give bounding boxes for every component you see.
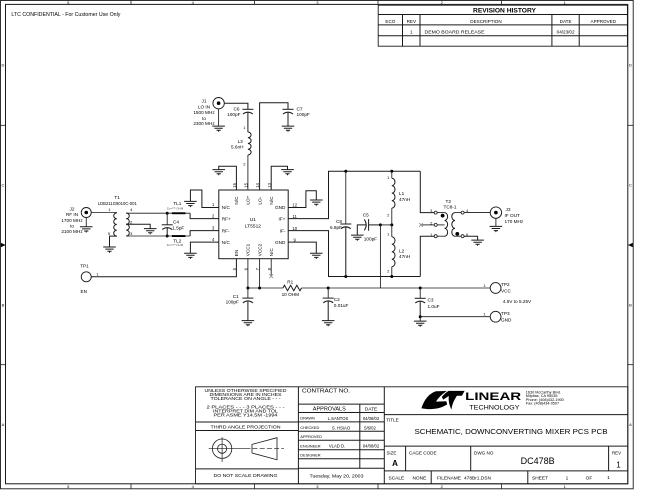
svg-text:GND: GND xyxy=(501,317,512,322)
svg-text:2300 MHz: 2300 MHz xyxy=(193,121,215,126)
svg-text:L.SANTOS: L.SANTOS xyxy=(328,416,349,421)
svg-text:CHECKED: CHECKED xyxy=(300,425,319,430)
node L1 L2 midpoint xyxy=(390,223,393,226)
wire VCC rail left segment xyxy=(248,287,283,289)
svg-text:1500 MHz: 1500 MHz xyxy=(193,110,215,115)
inductor L1 47nH xyxy=(387,171,410,225)
svg-text:VLAD D.: VLAD D. xyxy=(329,444,345,449)
svg-text:U1: U1 xyxy=(250,217,257,223)
svg-text:1: 1 xyxy=(566,476,569,482)
svg-text:100pF: 100pF xyxy=(297,112,310,117)
svg-text:APPROVED: APPROVED xyxy=(300,434,322,439)
drawing title xyxy=(384,418,628,446)
svg-text:J1: J1 xyxy=(202,98,207,103)
svg-text:10 OHM: 10 OHM xyxy=(282,292,300,297)
svg-text:VCC1: VCC1 xyxy=(246,243,251,256)
svg-text:SCALE: SCALE xyxy=(389,476,405,482)
svg-text:J2: J2 xyxy=(70,206,75,211)
ground at C2 xyxy=(322,321,335,327)
svg-text:1: 1 xyxy=(410,29,413,34)
logo Linear Technology xyxy=(384,390,628,414)
svg-text:APPROVALS: APPROVALS xyxy=(313,407,346,413)
svg-text:A: A xyxy=(392,459,398,468)
svg-text:N/C: N/C xyxy=(269,248,274,257)
svg-text:5.6nH: 5.6nH xyxy=(231,145,244,150)
svg-text:DC478B: DC478B xyxy=(521,456,555,466)
svg-text:S. HSIAO: S. HSIAO xyxy=(332,425,351,430)
wire TL2 to U1 pin 3 xyxy=(190,231,219,236)
svg-text:47nH: 47nH xyxy=(399,254,410,259)
svg-text:IF+: IF+ xyxy=(278,216,285,221)
svg-text:REV: REV xyxy=(612,451,621,456)
svg-text:OF: OF xyxy=(586,476,593,482)
svg-text:APPROVED: APPROVED xyxy=(591,19,617,24)
capacitor C4 1.5pF xyxy=(162,213,185,236)
svg-text:CAGE CODE: CAGE CODE xyxy=(409,450,437,455)
svg-text:LT5512: LT5512 xyxy=(245,223,262,229)
svg-text:EN: EN xyxy=(234,250,239,257)
wire bias riser to VCC rail xyxy=(379,225,381,288)
capacitor C8 6.8pF xyxy=(330,171,351,276)
svg-text:DRAWN: DRAWN xyxy=(300,416,315,421)
capacitor C3 1.0uF xyxy=(415,288,440,317)
svg-text:C1: C1 xyxy=(233,294,239,299)
capacitor C6 100pF xyxy=(227,106,253,117)
capacitor C1 100pF xyxy=(226,288,254,321)
wire T1 pin 5 to ground xyxy=(110,236,117,247)
node bottom rail C8 junction xyxy=(344,275,347,278)
resistor R1 10 OHM xyxy=(282,279,302,297)
svg-text:DESCRIPTION: DESCRIPTION xyxy=(470,19,501,24)
transformer T2 TC8-1 xyxy=(430,199,469,238)
svg-text:4.5V to 5.25V: 4.5V to 5.25V xyxy=(503,299,532,304)
svg-text:Fax: (408)434-0507: Fax: (408)434-0507 xyxy=(526,402,559,406)
svg-text:C7: C7 xyxy=(297,106,303,111)
ground at C5 xyxy=(351,235,364,241)
svg-text:04/08/02: 04/08/02 xyxy=(363,444,380,449)
wire U1 pin 5 EN to TP1 xyxy=(91,259,236,277)
ground at T1 pin 2 xyxy=(144,229,157,235)
svg-text:J3: J3 xyxy=(506,207,511,212)
svg-text:N/C: N/C xyxy=(222,240,231,245)
svg-text:C8: C8 xyxy=(336,219,342,224)
svg-text:RF-: RF- xyxy=(222,228,230,233)
svg-text:C: C xyxy=(629,183,632,188)
svg-text:EN: EN xyxy=(80,289,87,294)
svg-text:PER ASME Y14.5M -1994: PER ASME Y14.5M -1994 xyxy=(214,413,279,418)
svg-text:C6: C6 xyxy=(234,106,240,111)
svg-text:LDB211G9010C-001: LDB211G9010C-001 xyxy=(98,201,137,206)
svg-text:170 MHz: 170 MHz xyxy=(505,219,524,224)
svg-text:15: 15 xyxy=(244,182,249,187)
ground at C7 xyxy=(282,112,295,132)
wire VCC rail right segment xyxy=(302,287,491,289)
node C2 junction xyxy=(327,287,330,290)
inductor L3 5.6nH xyxy=(231,125,251,166)
svg-text:SHEET: SHEET xyxy=(532,476,548,482)
ground at J1 xyxy=(212,109,225,132)
svg-text:10: 10 xyxy=(292,226,297,231)
scale filename sheet row xyxy=(389,471,611,484)
svg-text:1.5pF: 1.5pF xyxy=(172,225,184,230)
svg-text:IF OUT: IF OUT xyxy=(505,213,520,218)
wire L3 to U1 pin 15 xyxy=(247,155,249,190)
svg-text:ECO: ECO xyxy=(385,19,395,24)
title block xyxy=(196,387,628,484)
svg-text:13: 13 xyxy=(267,182,272,187)
svg-text:GND: GND xyxy=(275,240,286,245)
ground at pin 4 xyxy=(184,253,197,259)
svg-text:TP2: TP2 xyxy=(501,282,510,287)
wire TL1 to U1 pin 2 xyxy=(190,213,219,218)
wire U1 pin 8 no-connect stub xyxy=(270,259,272,276)
svg-text:T2: T2 xyxy=(445,199,451,204)
wire C5 node to L1 L2 midpoint xyxy=(380,224,391,226)
ground at C3 xyxy=(414,317,427,327)
svg-text:Tuesday, May 20, 2003: Tuesday, May 20, 2003 xyxy=(310,473,364,479)
svg-text:VCC: VCC xyxy=(501,289,512,294)
svg-text:DESIGNER: DESIGNER xyxy=(300,453,321,458)
connector J2 RF IN xyxy=(61,206,91,234)
op-amp U1 LT5512 mixer IC xyxy=(212,182,298,270)
node bottom rail L2 junction xyxy=(390,275,393,278)
svg-text:100pF: 100pF xyxy=(226,299,239,304)
svg-text:A: A xyxy=(629,422,632,427)
svg-text:04/23/02: 04/23/02 xyxy=(557,29,575,34)
svg-text:REV: REV xyxy=(407,19,417,24)
capacitor C5 100pF xyxy=(357,212,380,241)
svg-text:LTC CONFIDENTIAL - For Custome: LTC CONFIDENTIAL - For Customer Use Only xyxy=(11,12,121,18)
svg-text:0.01uF: 0.01uF xyxy=(334,303,349,308)
svg-text:TP3: TP3 xyxy=(501,311,510,316)
wire T2 pin 2 stub no-connect xyxy=(422,224,434,226)
svg-text:N/C: N/C xyxy=(269,196,274,205)
svg-text:GND: GND xyxy=(275,205,286,210)
wire U1 pin 1 to ground xyxy=(190,190,218,208)
svg-text:Zo=?? OHM: Zo=?? OHM xyxy=(167,243,184,247)
wire bottom rail to T2 pin 1 xyxy=(420,236,434,276)
wire T1 pin 2 center tap to ground xyxy=(126,224,150,228)
inductor L2 47nH xyxy=(387,225,410,277)
node VCC1 junction xyxy=(246,287,249,290)
transformer T1 LDB211G9010C-001 xyxy=(98,195,137,236)
svg-text:B: B xyxy=(629,302,632,307)
revision history table xyxy=(378,5,627,46)
node C3 ground junction xyxy=(419,315,422,318)
wire U1 pin 13 to ground xyxy=(271,166,287,190)
wire top rail to T2 pin 3 xyxy=(420,171,434,212)
svg-text:L2: L2 xyxy=(399,248,405,253)
svg-text:C: C xyxy=(2,183,5,188)
svg-text:D: D xyxy=(2,62,5,67)
svg-text:RF+: RF+ xyxy=(222,216,231,221)
wire J2 to T1 pin 1 xyxy=(91,212,117,214)
svg-text:1700 MHz: 1700 MHz xyxy=(61,218,83,223)
svg-text:TC8-1: TC8-1 xyxy=(443,205,456,210)
connector J1 LO IN xyxy=(193,98,224,126)
wire T1 pin 3 to node RF- xyxy=(126,235,167,237)
svg-text:Zo=?? OHM: Zo=?? OHM xyxy=(167,207,184,211)
svg-text:C5: C5 xyxy=(363,212,369,217)
ground at T2 pin 6 xyxy=(471,240,484,246)
transmission line TL1 xyxy=(167,201,190,214)
wire ground rail to TP3 xyxy=(420,316,490,318)
svg-text:100pF: 100pF xyxy=(227,112,240,117)
node top rail C8 junction xyxy=(344,170,347,173)
wire U1 pin 9 to ground xyxy=(288,242,316,253)
capacitor C2 0.01uF xyxy=(323,288,349,321)
svg-text:SIZE: SIZE xyxy=(387,450,397,455)
test point TP3 GND xyxy=(483,311,512,322)
ground at pin 12 xyxy=(310,200,323,206)
svg-text:LO IN: LO IN xyxy=(198,104,210,109)
svg-text:N/C: N/C xyxy=(234,196,239,205)
svg-text:FILENAME: FILENAME xyxy=(437,476,461,482)
wire U1 pin 7 VCC2 to rail xyxy=(259,259,261,288)
svg-text:SCHEMATIC, DOWNCONVERTING MIXE: SCHEMATIC, DOWNCONVERTING MIXER PCS PCB xyxy=(415,427,608,436)
ground at C1 xyxy=(242,321,255,327)
svg-text:47nH: 47nH xyxy=(399,197,410,202)
wire U1 pin 11 IF+ to top rail xyxy=(288,171,420,218)
svg-text:A: A xyxy=(2,422,5,427)
node C5 junction xyxy=(379,223,382,226)
svg-text:L1: L1 xyxy=(399,191,405,196)
svg-text:VCC2: VCC2 xyxy=(257,243,262,256)
ground at J3 xyxy=(490,218,503,232)
svg-text:C3: C3 xyxy=(428,297,434,302)
test point TP2 VCC xyxy=(483,282,511,293)
test point TP1 EN xyxy=(80,263,99,294)
svg-text:1: 1 xyxy=(607,475,610,481)
capacitor C7 100pF xyxy=(283,106,310,117)
wire C6 to L3 xyxy=(247,112,249,132)
wire T1 pin 4 to node RF+ xyxy=(126,212,167,214)
wire U1 pin 10 IF- to bottom rail xyxy=(288,231,420,277)
svg-text:CONTRACT NO.: CONTRACT NO. xyxy=(302,388,350,394)
approvals block xyxy=(298,388,384,479)
svg-text:N/C: N/C xyxy=(222,205,231,210)
ground at pin 1 xyxy=(184,201,197,207)
svg-text:DEMO BOARD RELEASE: DEMO BOARD RELEASE xyxy=(425,29,485,34)
svg-text:16: 16 xyxy=(232,182,237,187)
wire U1 pin 14 LO- to C7 xyxy=(260,103,288,190)
size cage dwg rev row xyxy=(384,446,628,471)
transmission line TL2 xyxy=(167,235,190,247)
svg-text:L3: L3 xyxy=(238,139,244,144)
node VCC2 junction xyxy=(258,287,261,290)
svg-text:DWG NO: DWG NO xyxy=(474,450,494,455)
svg-text:DATE: DATE xyxy=(365,406,377,412)
wire T2 pin 4 to J3 xyxy=(464,212,490,214)
wire U1 pin 4 to ground xyxy=(190,242,218,253)
svg-text:TOLERANCE ON ANGLE - - -: TOLERANCE ON ANGLE - - - xyxy=(211,396,282,401)
ground at pin 13 xyxy=(281,170,294,176)
svg-text:C4: C4 xyxy=(173,220,179,225)
svg-text:RF IN: RF IN xyxy=(66,212,78,217)
third angle projection symbol xyxy=(209,437,284,462)
svg-text:NONE: NONE xyxy=(412,476,426,482)
node top rail L1 junction xyxy=(390,170,393,173)
node RF+ junction xyxy=(166,212,169,215)
svg-text:100pF: 100pF xyxy=(364,236,377,241)
svg-text:R1: R1 xyxy=(287,279,293,284)
wire J1 to C6 xyxy=(224,103,248,109)
svg-text:TECHNOLOGY: TECHNOLOGY xyxy=(469,405,519,411)
svg-text:LINEAR: LINEAR xyxy=(465,391,521,403)
svg-text:LO+: LO+ xyxy=(246,195,251,204)
svg-text:C2: C2 xyxy=(334,297,340,302)
wire U1 pin 12 to ground xyxy=(288,191,316,208)
svg-text:DO NOT SCALE DRAWING: DO NOT SCALE DRAWING xyxy=(214,473,278,478)
ground at T1 pin 5 xyxy=(103,247,116,253)
svg-text:1: 1 xyxy=(616,461,621,470)
wire T2 pin 6 to ground xyxy=(464,236,478,240)
node RF- junction xyxy=(166,235,169,238)
svg-text:LO-: LO- xyxy=(257,196,262,204)
svg-text:2100 MHz: 2100 MHz xyxy=(61,229,83,234)
svg-text:THIRD ANGLE PROJECTION: THIRD ANGLE PROJECTION xyxy=(211,424,281,429)
svg-text:04/08/02: 04/08/02 xyxy=(363,416,380,421)
svg-text:B: B xyxy=(2,302,5,307)
svg-text:IF-: IF- xyxy=(280,228,286,233)
ground at pin 16 xyxy=(212,170,225,176)
svg-text:REVISION HISTORY: REVISION HISTORY xyxy=(473,8,536,15)
svg-text:6.8pF: 6.8pF xyxy=(330,225,342,230)
svg-text:D: D xyxy=(629,62,632,67)
svg-text:DATE: DATE xyxy=(560,19,572,24)
svg-text:5/6/02: 5/6/02 xyxy=(364,425,376,430)
node C3 junction xyxy=(419,287,422,290)
connector J3 IF OUT xyxy=(490,207,524,224)
svg-text:TL1: TL1 xyxy=(173,201,181,206)
svg-text:478Br1.DSN: 478Br1.DSN xyxy=(464,476,491,482)
svg-text:TP1: TP1 xyxy=(80,263,89,268)
svg-text:ENGINEER: ENGINEER xyxy=(300,444,321,449)
wire U1 pin 16 to ground xyxy=(219,166,237,190)
ground at J2 xyxy=(80,218,93,233)
svg-text:1.0uF: 1.0uF xyxy=(428,304,440,309)
svg-text:12: 12 xyxy=(292,203,297,208)
svg-text:14: 14 xyxy=(255,182,260,187)
svg-text:TITLE: TITLE xyxy=(386,418,399,423)
svg-text:T1: T1 xyxy=(114,195,120,200)
svg-text:to: to xyxy=(70,224,74,229)
ground at pin 9 xyxy=(310,253,323,259)
wire U1 pin 6 VCC1 to rail xyxy=(247,259,249,288)
